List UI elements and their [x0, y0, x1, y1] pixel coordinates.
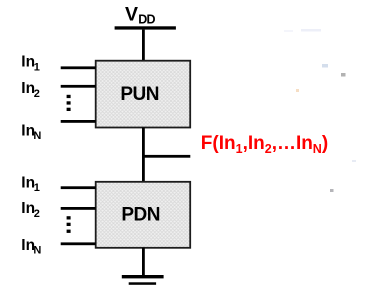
wire output stub: [142, 155, 190, 158]
ground bar 2: [129, 282, 156, 285]
svg-text:1: 1: [34, 61, 40, 73]
ground bar 1: [122, 275, 164, 278]
svg-text:2: 2: [265, 142, 272, 156]
wire PDN input InN: [61, 242, 96, 245]
label InN (PUN): [21, 123, 41, 143]
svg-text:V: V: [125, 3, 138, 25]
wire PUN to PDN (output node): [142, 128, 145, 183]
svg-text:2: 2: [34, 208, 40, 220]
label In1 (PUN): [21, 54, 40, 74]
wire PUN input In2: [61, 85, 96, 88]
svg-text:1: 1: [34, 182, 40, 194]
power rail VDD label: [125, 3, 156, 26]
ellipsis dots (PUN inputs): [67, 95, 71, 111]
wire PDN to ground: [142, 248, 145, 275]
svg-text:F(In: F(In: [201, 133, 236, 154]
label In2 (PUN): [21, 80, 40, 100]
wire PDN input In2: [61, 207, 96, 210]
block PUN: [96, 61, 191, 128]
svg-text:2: 2: [34, 88, 40, 100]
wire PUN input In1: [61, 66, 96, 69]
label In2 (PDN): [21, 200, 40, 220]
svg-text:,…In: ,…In: [272, 133, 313, 154]
wire VDD bar to PUN: [142, 30, 145, 61]
svg-text:,In: ,In: [243, 133, 265, 154]
svg-text:N: N: [313, 142, 322, 156]
block PDN: [96, 182, 191, 248]
wire PDN input In1: [61, 186, 96, 189]
svg-text:1: 1: [236, 142, 243, 156]
node label F(In1,In2,...InN): [201, 133, 328, 156]
ellipsis dots (PDN inputs): [67, 216, 71, 233]
label InN (PDN): [21, 237, 41, 256]
svg-text:N: N: [33, 130, 41, 142]
svg-text:): ): [322, 133, 328, 154]
label In1 (PDN): [21, 174, 40, 194]
svg-text:N: N: [33, 244, 41, 256]
wire PUN input InN: [61, 120, 96, 123]
svg-text:PDN: PDN: [121, 204, 160, 225]
svg-text:PUN: PUN: [120, 84, 159, 105]
svg-text:DD: DD: [138, 13, 155, 27]
VDD supply bar: [115, 26, 176, 29]
faint artifact specks: [284, 29, 356, 192]
